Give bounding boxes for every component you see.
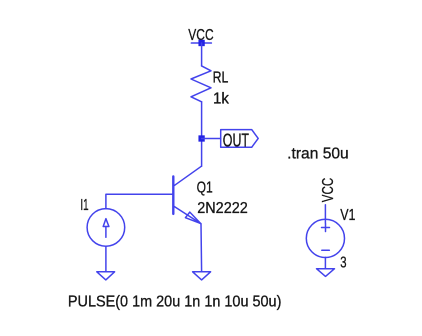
wire I1 top to base [106, 194, 172, 208]
svg-text:VCC: VCC [320, 178, 337, 203]
svg-text:2N2222: 2N2222 [197, 200, 248, 217]
resistor RL [191, 66, 211, 102]
transistor Q1 [173, 166, 201, 223]
ground (I1) [97, 272, 115, 280]
net label VCC (top) [188, 27, 213, 44]
node junction at VCC flag [198, 40, 204, 46]
wire V1 to ground [324, 257, 326, 268]
svg-text:1k: 1k [213, 90, 229, 107]
current source I1 [87, 209, 125, 247]
svg-text:.tran 50u: .tran 50u [287, 146, 349, 163]
node junction OUT [198, 135, 204, 141]
voltage source V1 [306, 219, 344, 257]
svg-text:I1: I1 [80, 197, 88, 214]
wire VCC label to V1 [324, 205, 326, 223]
ground (emitter) [193, 272, 211, 280]
wire RL to collector node [201, 102, 203, 167]
svg-text:OUT: OUT [223, 129, 249, 150]
svg-text:3: 3 [340, 255, 346, 272]
ground (V1) [317, 269, 335, 277]
svg-text:Q1: Q1 [197, 179, 213, 196]
svg-text:V1: V1 [340, 207, 355, 224]
wire emitter to ground [200, 224, 203, 272]
net flag OUT [221, 129, 259, 150]
wire node to OUT flag [202, 138, 221, 140]
svg-text:RL: RL [213, 69, 229, 86]
svg-text:PULSE(0 1m 20u 1n 1n 10u 50u): PULSE(0 1m 20u 1n 1n 10u 50u) [68, 293, 282, 310]
wire VCC flag to resistor RL [201, 43, 203, 66]
wire I1 to ground [105, 246, 107, 272]
